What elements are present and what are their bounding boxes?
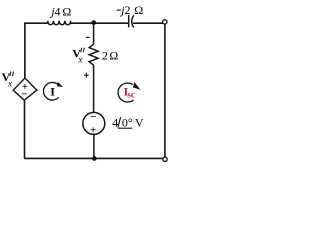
svg-text:x: x: [7, 79, 13, 89]
node junction dot top: [91, 20, 96, 25]
short-circuit current loop Isc arc: [118, 83, 134, 102]
terminal open circle top-right: [163, 20, 167, 24]
short-circuit current loop Isc arrowhead: [133, 82, 141, 90]
wire top-left horizontal (corner to inductor): [24, 22, 48, 24]
polarity minus above resistor: [86, 36, 90, 38]
svg-text:I: I: [50, 85, 55, 99]
wire right vertical: [164, 24, 166, 157]
node junction dot bottom: [92, 156, 97, 161]
inductor L1: [48, 21, 71, 25]
wire left vertical upper: [24, 23, 26, 79]
svg-text:0°: 0°: [122, 115, 133, 129]
wire middle vertical (junction to resistor): [93, 23, 95, 44]
resistor R1 zigzag: [89, 44, 98, 65]
svg-text:Ω: Ω: [109, 49, 118, 63]
wire top-right horizontal (capacitor to terminal): [133, 22, 163, 24]
wire middle vertical (source to bottom): [93, 134, 95, 158]
svg-text:V: V: [135, 115, 144, 129]
capacitor C1 curved plate: [132, 15, 134, 27]
svg-text:Ω: Ω: [134, 3, 143, 17]
polarity plus below resistor: [84, 73, 89, 78]
svg-text:j4: j4: [49, 4, 60, 18]
wire bottom horizontal: [24, 157, 163, 159]
mesh current loop I arc: [44, 82, 59, 100]
svg-text:x: x: [77, 56, 83, 66]
wire left vertical lower: [24, 100, 26, 158]
svg-text:Ω: Ω: [62, 5, 71, 19]
svg-text:−: −: [90, 111, 96, 123]
capacitor C1 straight plate: [128, 15, 130, 27]
voltage source V1 circle: [83, 112, 105, 134]
wire top-middle horizontal (inductor to capacitor): [70, 22, 129, 24]
svg-text:−: −: [21, 89, 27, 101]
svg-text:sc: sc: [127, 89, 135, 99]
terminal open circle bottom-right: [163, 157, 167, 161]
mesh current loop I arrowhead: [57, 82, 63, 87]
svg-text:2: 2: [102, 49, 108, 63]
dependent source U1 diamond: [13, 78, 37, 100]
wire middle vertical (resistor to source): [93, 65, 95, 112]
svg-text:j2: j2: [119, 3, 130, 17]
capacitor value label -j2 ohm: [117, 9, 121, 11]
